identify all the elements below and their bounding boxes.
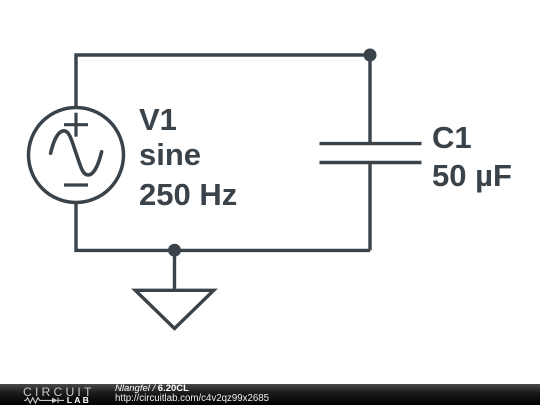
- svg-text:http://circuitlab.com/c4v2qz99: http://circuitlab.com/c4v2qz99x2685: [115, 393, 269, 404]
- svg-text:250 Hz: 250 Hz: [139, 177, 237, 212]
- svg-text:C1: C1: [432, 120, 472, 155]
- svg-text:LAB: LAB: [67, 395, 91, 405]
- svg-text:50 µF: 50 µF: [432, 158, 512, 193]
- svg-text:V1: V1: [139, 102, 177, 137]
- svg-text:sine: sine: [139, 137, 201, 172]
